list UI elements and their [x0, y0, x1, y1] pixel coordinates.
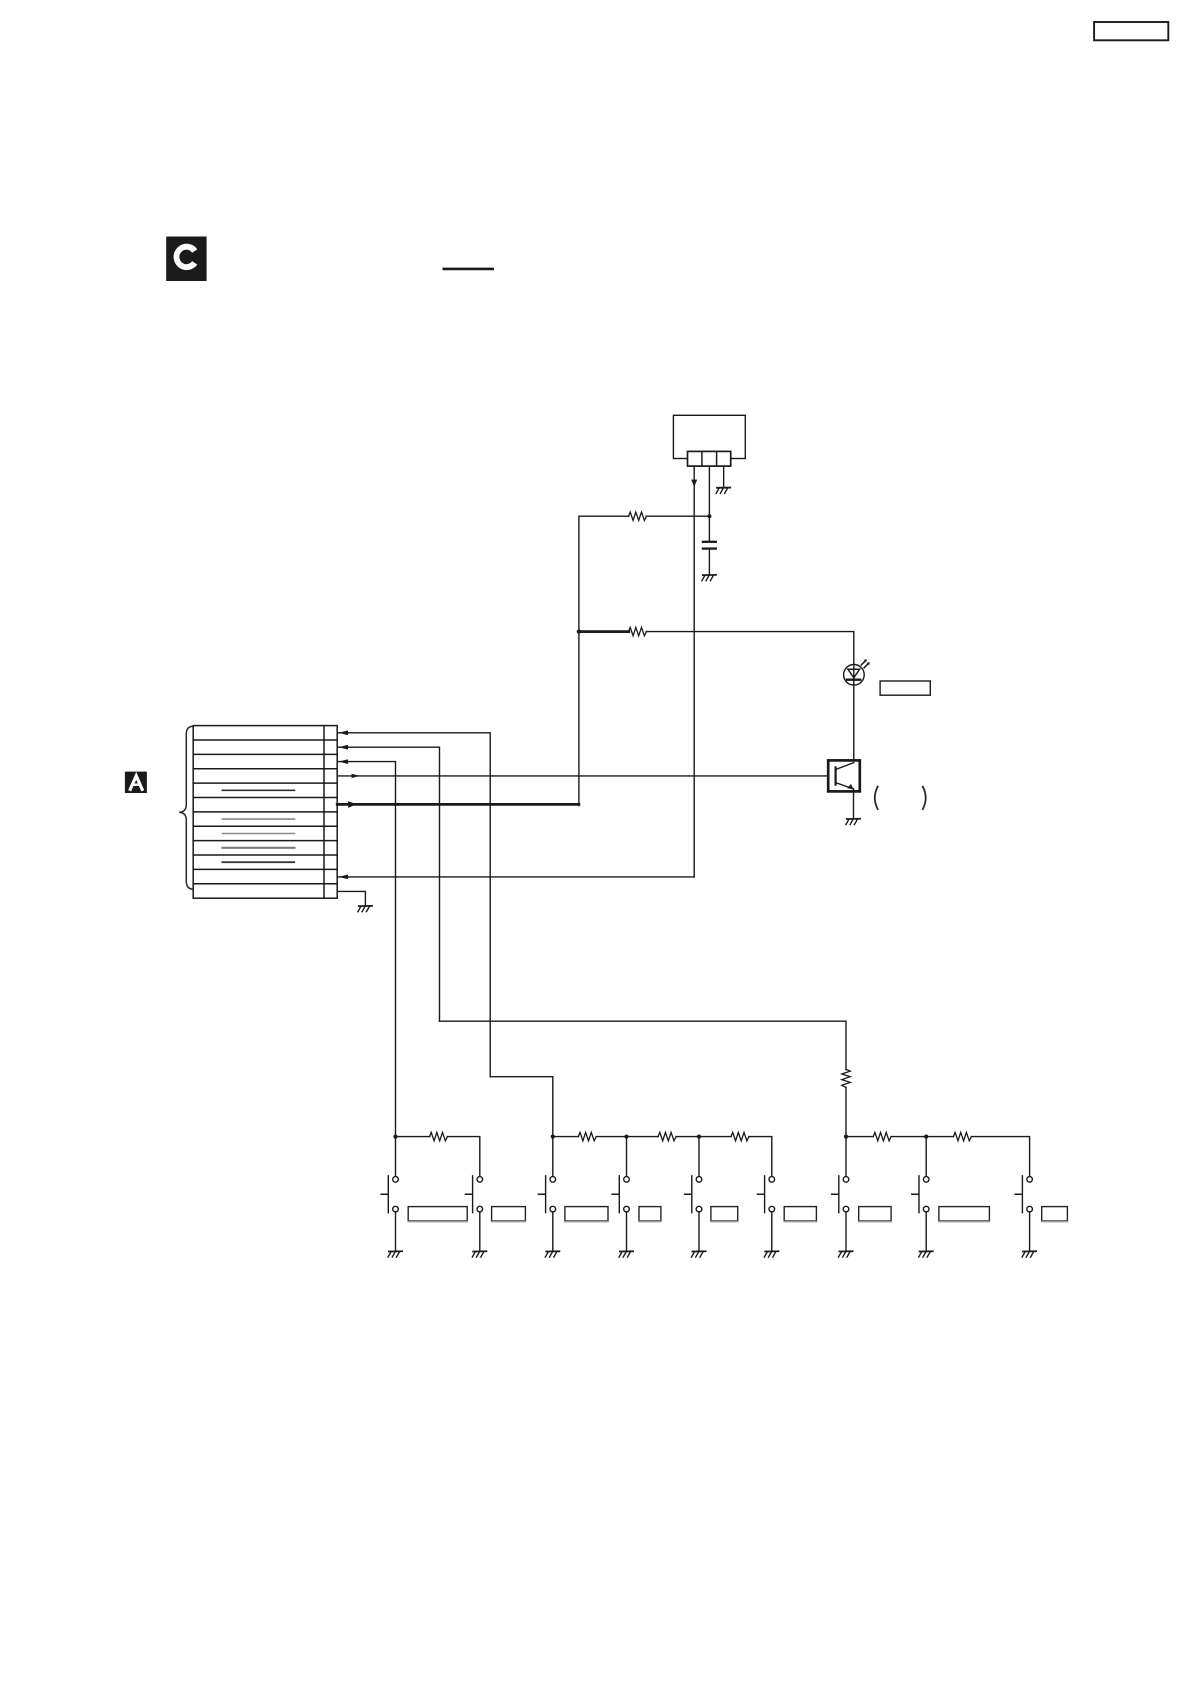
wire row3 to column x395: [339, 762, 396, 1137]
switch S9: [1015, 1176, 1032, 1251]
wire bus y1077 jog: [490, 1077, 553, 1137]
ground at S5: [692, 1251, 706, 1257]
switch S5: [685, 1176, 702, 1251]
switch S4: [612, 1176, 629, 1251]
ground at connector A row12: [358, 906, 372, 912]
switch S3: [538, 1176, 555, 1251]
ground at S2: [472, 1251, 486, 1257]
wire to switch: [925, 1137, 927, 1177]
node dot S3: [551, 1135, 555, 1139]
section label A (black tab): [125, 772, 147, 793]
ground at C1: [702, 575, 716, 581]
connector A (12-way block): [193, 726, 337, 899]
resistor R4: [430, 1132, 448, 1140]
node dot S8: [924, 1135, 928, 1139]
ground at S7: [839, 1251, 853, 1257]
D1 label box: [880, 681, 930, 695]
section label C (black tab): [166, 237, 206, 282]
net label line row5: [222, 789, 294, 791]
S8 label box: [939, 1207, 990, 1221]
wire switch bus group1: [396, 1137, 480, 1177]
wire pin2 down: [708, 466, 710, 516]
wire row11 from pin1 column: [338, 876, 694, 878]
transistor Q1 (digital transistor in box): [828, 760, 860, 818]
node N2 junction dot: [577, 629, 581, 633]
ground at S3: [545, 1251, 559, 1257]
Q1 note parentheses: [875, 787, 878, 810]
resistor R9: [953, 1132, 971, 1140]
net label line row9: [222, 847, 294, 849]
resistor R2: [629, 627, 647, 635]
S3 label box: [565, 1207, 608, 1221]
wire row2 to column x439: [339, 747, 440, 1021]
wire bus y1021 to right resistor column: [440, 1021, 847, 1069]
ground at S1: [388, 1251, 402, 1257]
S9 label box: [1042, 1207, 1068, 1221]
ground at CN1 pin3: [716, 488, 730, 494]
wire to switch: [395, 1137, 397, 1177]
title underline: [444, 268, 493, 271]
S2 label box: [492, 1207, 526, 1221]
wire pin3 down: [723, 466, 725, 487]
wire R2 to LED column: [646, 632, 854, 665]
node N1 junction dot: [707, 514, 711, 518]
net label line row8: [222, 833, 294, 835]
resistor R3 (vertical): [842, 1069, 850, 1087]
wire to switch: [626, 1137, 628, 1177]
resistor R8: [873, 1132, 891, 1140]
switch S2: [465, 1176, 482, 1251]
resistor R7: [731, 1132, 749, 1140]
resistor R5: [578, 1132, 596, 1140]
capacitor C1: [703, 516, 716, 574]
node dot S4: [624, 1135, 628, 1139]
arrow down on pin1 wire: [691, 480, 697, 487]
S5 label box: [711, 1207, 738, 1221]
wire pin1 down long run to node row11: [693, 466, 695, 877]
wire row6 thick to node N2: [337, 803, 579, 806]
switch S6: [757, 1176, 774, 1251]
S6 label box: [784, 1207, 816, 1221]
ground at S9: [1022, 1251, 1036, 1257]
resistor R6: [658, 1132, 676, 1140]
page number box (top right): [1094, 22, 1168, 40]
switch S7: [832, 1176, 849, 1251]
wire row4 to Q1 base: [337, 775, 828, 777]
ground at Q1 emitter: [846, 819, 860, 825]
brace for connector A: [179, 726, 192, 889]
S1 label box: [408, 1207, 467, 1221]
S7 label box: [859, 1207, 891, 1221]
switch S8: [912, 1176, 929, 1251]
wire row12 to ground: [337, 891, 365, 905]
net label line row10: [222, 861, 294, 863]
switch S1: [381, 1176, 398, 1251]
connector CN1 (top unit box): [673, 415, 745, 458]
wire N1 left: [579, 516, 710, 631]
net label line row7: [222, 818, 294, 820]
ground at S4: [619, 1251, 633, 1257]
S4 label box: [639, 1207, 661, 1221]
wire to switch: [845, 1137, 847, 1177]
wire to switch: [552, 1137, 554, 1177]
resistor R1: [629, 512, 647, 520]
ground at S6: [764, 1251, 778, 1257]
wire switch bus group2: [553, 1137, 772, 1177]
node dot S5: [697, 1135, 701, 1139]
node dot S1: [393, 1135, 397, 1139]
wire N2 thick stub: [579, 630, 629, 633]
node dot S7: [844, 1135, 848, 1139]
wire to switch: [698, 1137, 700, 1177]
wire switch bus group3: [846, 1137, 1030, 1177]
LED D1: [844, 659, 870, 760]
ground at S8: [919, 1251, 933, 1257]
CN1 pin block (3 cells): [688, 451, 731, 466]
wire row1 to column x490: [339, 733, 491, 1077]
